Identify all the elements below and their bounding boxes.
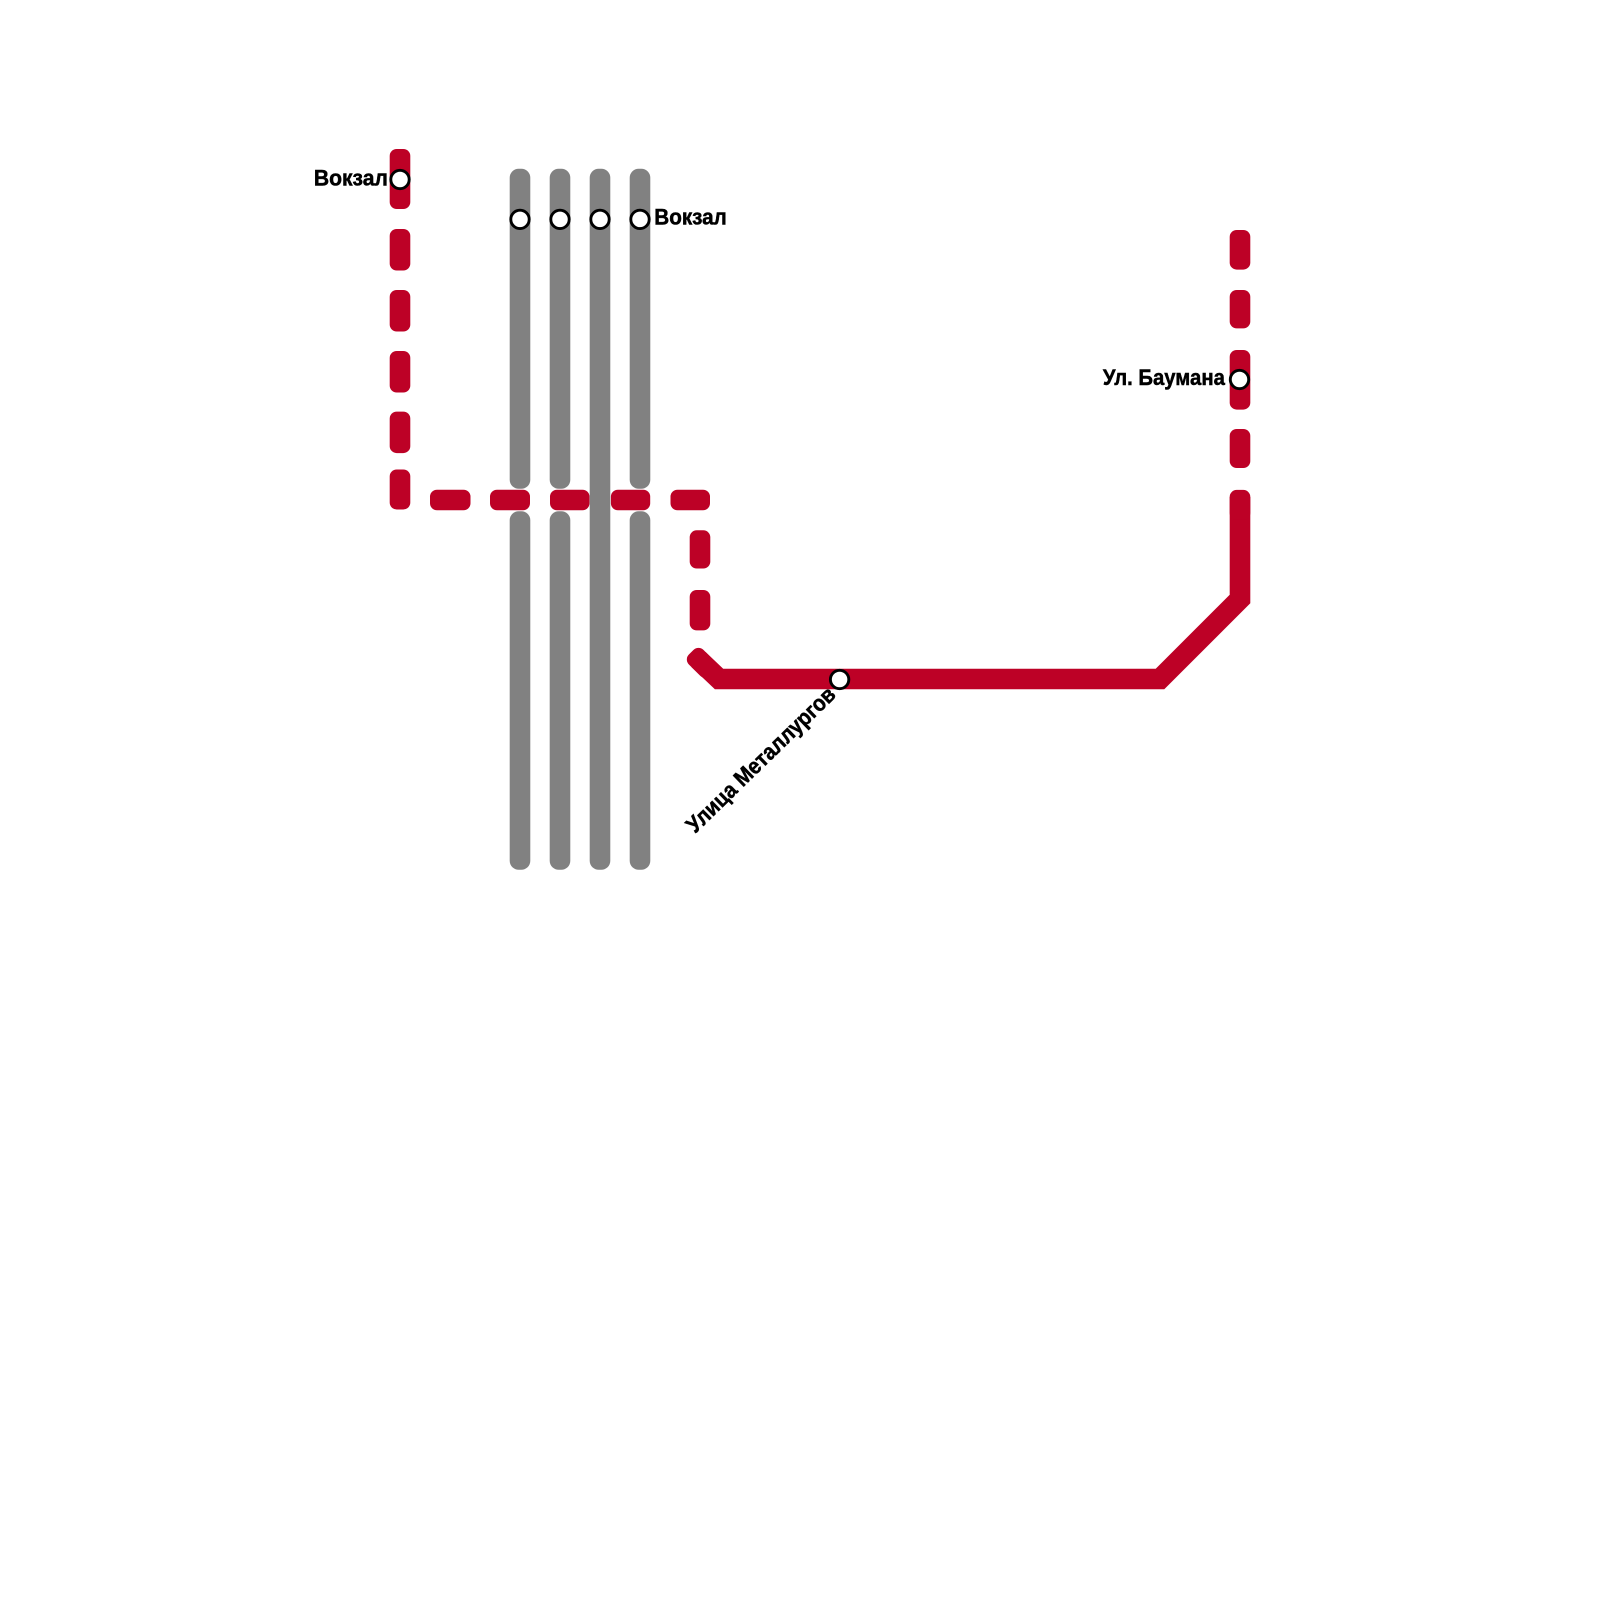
dash xyxy=(390,351,411,393)
dash xyxy=(390,412,411,454)
station circle track 2 xyxy=(551,210,569,228)
gray track line 2 upper segment xyxy=(550,169,571,489)
station circle track 3 xyxy=(591,210,609,228)
dash xyxy=(671,490,711,511)
station circle Vokzal (left) xyxy=(391,170,409,188)
dash xyxy=(390,470,411,510)
dash xyxy=(690,530,711,568)
dash xyxy=(611,490,650,511)
dash xyxy=(550,490,590,511)
dash xyxy=(1230,230,1251,270)
dash xyxy=(430,490,471,511)
gray track line 3 full xyxy=(590,169,611,870)
red solid line top cap (octagonal) xyxy=(1230,490,1251,520)
svg-text:Ул. Баумана: Ул. Баумана xyxy=(1103,365,1225,390)
dash xyxy=(390,149,411,209)
dash xyxy=(390,229,411,271)
station circle Ulitsa Metallurgov xyxy=(830,670,848,688)
red dashed line: vertical run x=400 xyxy=(390,149,1251,630)
red solid line start cap (octagonal) xyxy=(684,645,720,681)
gray track line 4 lower segment xyxy=(630,511,651,870)
gray track line 4 upper segment xyxy=(630,169,651,489)
svg-text:Вокзал: Вокзал xyxy=(314,166,388,191)
dash xyxy=(690,590,711,630)
gray track line 1 lower segment xyxy=(510,511,531,870)
dash xyxy=(1230,290,1251,328)
station circle track 4 xyxy=(631,210,649,228)
station circle track 1 xyxy=(511,210,529,228)
dash (through Ul. Baumana station) xyxy=(1230,350,1251,410)
dash xyxy=(390,290,411,332)
gray track line 1 upper segment xyxy=(510,169,531,489)
gray track line 2 lower segment xyxy=(550,511,571,870)
station circle Ul. Baumana xyxy=(1230,370,1248,388)
dash xyxy=(490,490,530,511)
red solid line xyxy=(699,497,1241,679)
dash xyxy=(1230,429,1251,468)
svg-text:Вокзал: Вокзал xyxy=(654,205,727,230)
